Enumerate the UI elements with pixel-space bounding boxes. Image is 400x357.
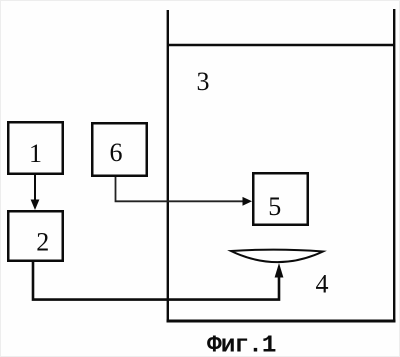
svg-text:3: 3 [197, 67, 210, 96]
svg-text:5: 5 [268, 192, 281, 221]
svg-text:1: 1 [29, 139, 42, 168]
svg-text:4: 4 [316, 270, 329, 299]
svg-text:6: 6 [110, 138, 123, 167]
svg-text:2: 2 [36, 228, 49, 257]
svg-text:Фиг.1: Фиг.1 [207, 333, 276, 357]
